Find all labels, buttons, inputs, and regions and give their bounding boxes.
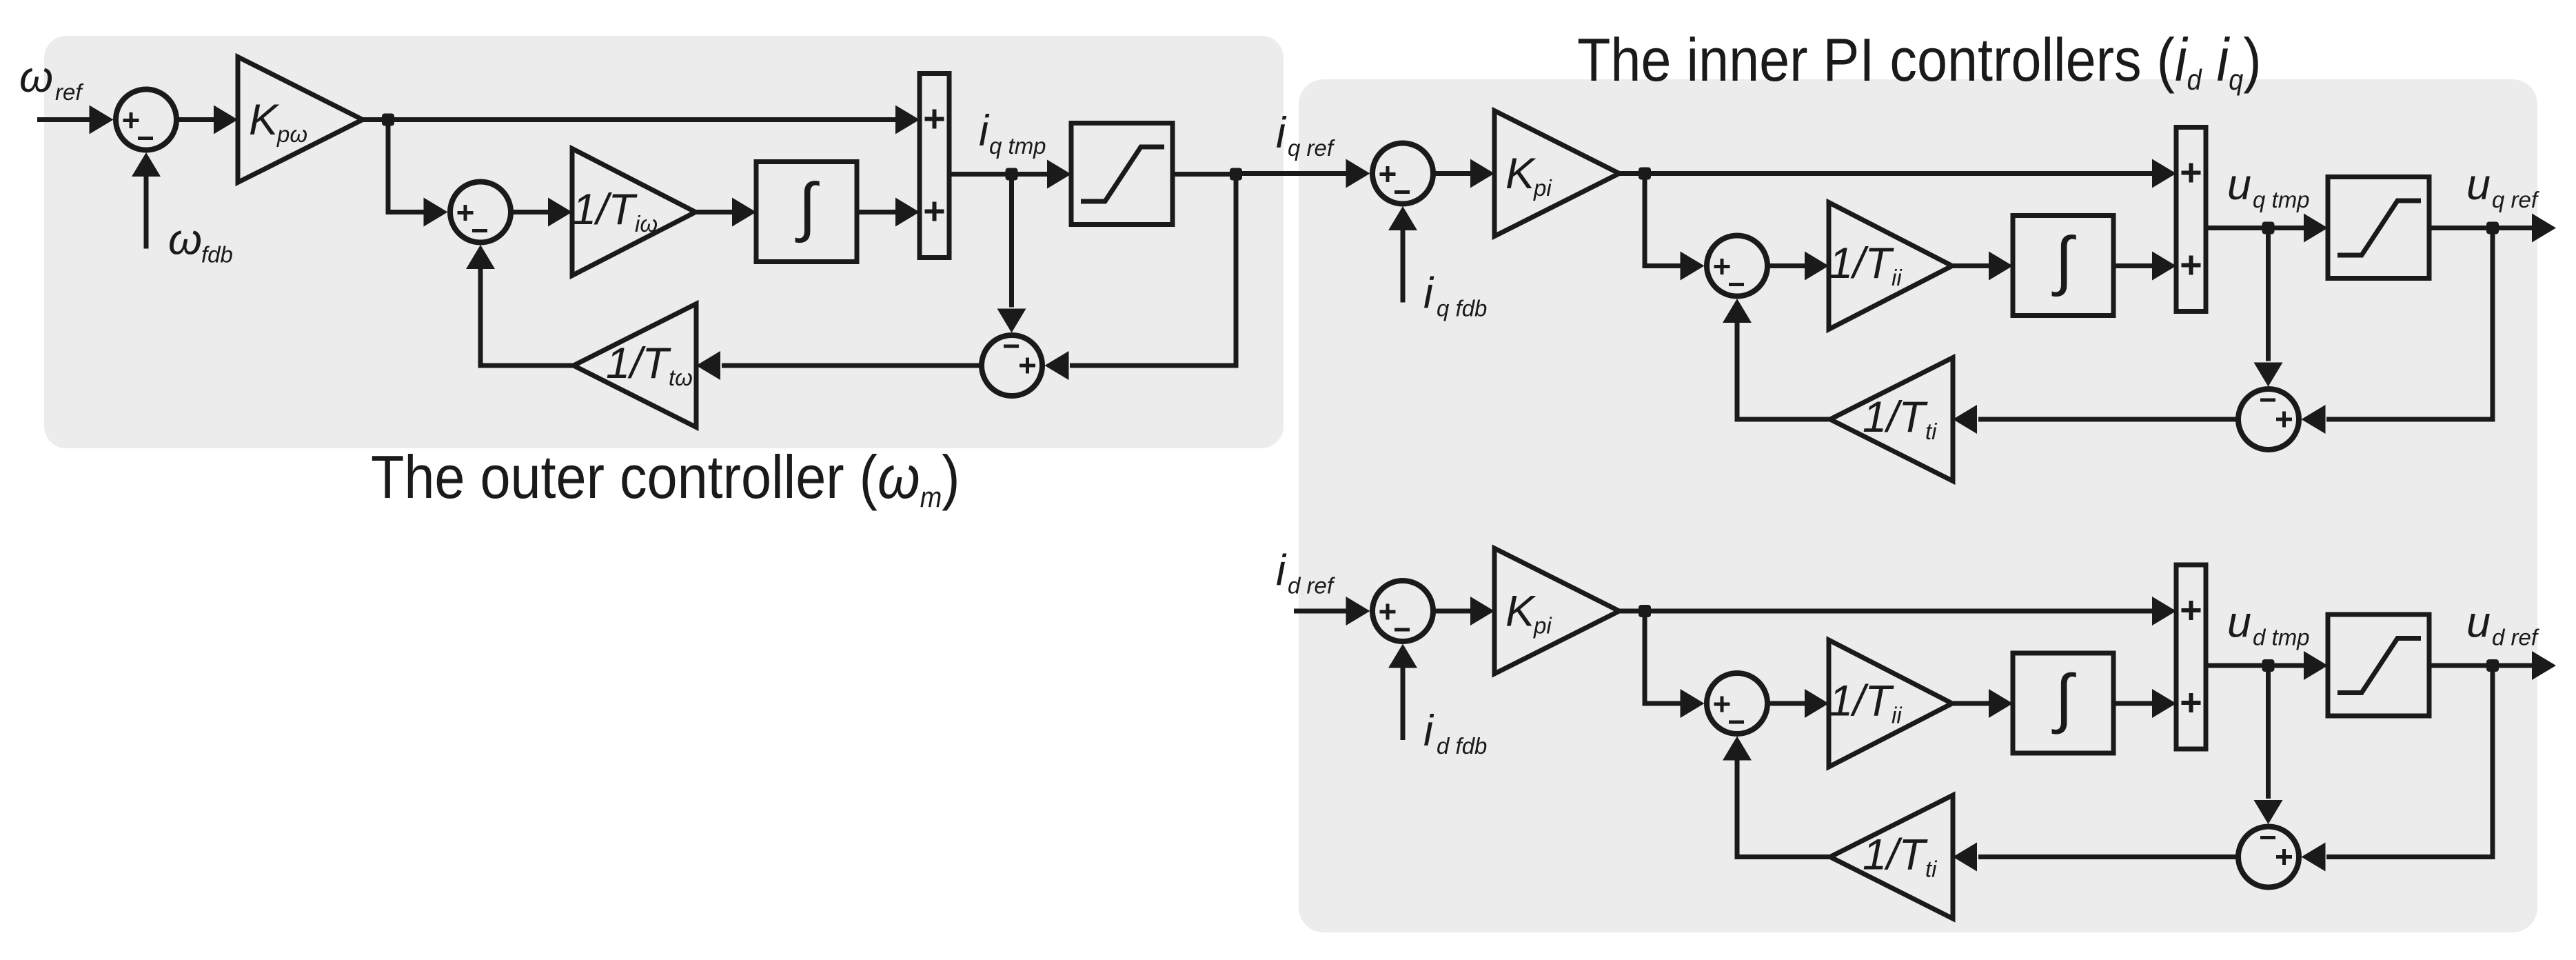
node junction i_q_tmp (1006, 168, 1018, 181)
svg-text:d tmp: d tmp (2253, 625, 2310, 650)
wire: summing junction D1 to gain Kpi_d (1436, 597, 1495, 626)
svg-text:u: u (2466, 161, 2491, 209)
wire: saturation D output (2429, 663, 2493, 668)
wire: u_q_tmp down to summing junction Q3 (2254, 228, 2283, 387)
wire: gain Kpw output to summing block W-sum (proportional path) (363, 106, 920, 134)
summing junction W1 (+/-) (116, 90, 176, 150)
node junction i_q_ref (1230, 168, 1242, 181)
svg-text:i: i (1423, 707, 1434, 755)
saturation block W (limiter) (1071, 123, 1173, 225)
wire: integrator Q to summing block Q-sum (integral path) (2113, 252, 2176, 281)
svg-text:q tmp: q tmp (2253, 187, 2310, 212)
svg-text:pi: pi (1533, 613, 1552, 639)
svg-text:pi: pi (1533, 175, 1552, 201)
summing junction Q1 (+/-) (1372, 143, 1433, 204)
svg-text:d ref: d ref (1288, 573, 1336, 599)
node i_q_tmp label (979, 107, 1046, 159)
svg-text:∫: ∫ (2051, 224, 2076, 297)
svg-text:iω: iω (635, 211, 658, 237)
wire: gain 1/T_ii_q to integrator Q (1952, 252, 2013, 281)
svg-text:1/T: 1/T (572, 186, 638, 234)
gain block 1/T_tw (triangle, anti-windup) (574, 304, 696, 428)
svg-text:ti: ti (1925, 419, 1938, 444)
wire: gain Kpi_d output to summing block D-sum (proportional path) (1619, 597, 2176, 626)
svg-text:K: K (1505, 588, 1537, 636)
integrator block Q (1/s) (2013, 216, 2113, 316)
wire: integrator D to summing block D-sum (integral path) (2113, 689, 2176, 718)
gain block Kpi_q (triangle) (1494, 111, 1619, 237)
svg-text:1/T: 1/T (1829, 677, 1895, 726)
wire: saturation W output (1173, 172, 1236, 177)
gain block 1/T_ii_q (triangle) (1829, 203, 1952, 330)
node u_d_ref label (2466, 599, 2540, 650)
svg-text:∫: ∫ (2051, 662, 2076, 735)
wire: summing junction Q3 to gain 1/T_ti_q (1953, 405, 2236, 434)
node junction u_d_tmp (2262, 659, 2275, 672)
summing junction W2 (+/-) (450, 182, 511, 243)
svg-text:ref: ref (55, 79, 84, 105)
node junction after gain Kpi_q (1639, 168, 1651, 180)
wire: summing block W-sum output to saturation W (949, 160, 1071, 189)
wire: gain 1/T_ti_q back up to summing junction Q2 (1723, 299, 1830, 419)
wire: omega_fdb feedback input into summing junction W1 (132, 152, 161, 249)
gain block Kpw (triangle) (238, 57, 363, 183)
wire: u_d_ref output down to summing junction D3 (2302, 666, 2493, 872)
svg-text:The inner PI controllers (id i: The inner PI controllers (id iq) (1577, 26, 2262, 96)
svg-text:The outer controller (ωm): The outer controller (ωm) (371, 443, 960, 513)
wire: i_q_tmp down to summing junction W3 (997, 174, 1026, 333)
wire: u_q_ref output arrow (2493, 214, 2556, 243)
node u_q_ref label (2466, 161, 2540, 212)
node i_q_ref input label (1276, 109, 1336, 161)
integrator block D (1/s) (2013, 653, 2113, 753)
wire: i_d_fdb feedback input into summing junction D1 (1388, 644, 1417, 741)
wire: i_d_ref input into summing junction D1 (1294, 597, 1370, 626)
wire: i_q_fdb feedback input into summing junction Q1 (1388, 206, 1417, 303)
svg-text:u: u (2227, 161, 2251, 209)
svg-text:∫: ∫ (795, 170, 820, 243)
svg-text:1/T: 1/T (1863, 393, 1929, 441)
wire: saturation Q output (2429, 226, 2493, 230)
node junction u_d_ref (2486, 659, 2499, 672)
svg-text:ω: ω (168, 216, 202, 264)
wire: gain 1/T_ii_d to integrator D (1952, 689, 2013, 718)
wire: summing junction W1 to gain Kpw (179, 106, 239, 134)
wire: gain 1/T_iw to integrator W (696, 198, 756, 227)
svg-text:K: K (249, 96, 280, 144)
wire: summing junction W3 to gain 1/T_tw (696, 351, 980, 380)
node i_d_ref input label (1276, 547, 1336, 599)
node omega_fdb feedback label (168, 216, 233, 268)
svg-text:i: i (1276, 547, 1287, 595)
node i_q_fdb feedback label (1423, 270, 1487, 321)
gain block 1/T_iw (triangle) (572, 149, 696, 276)
svg-text:q fdb: q fdb (1437, 296, 1487, 321)
svg-text:i: i (1423, 270, 1434, 318)
summing junction D3 (-/+ anti-windup) (2238, 827, 2299, 888)
svg-text:i: i (1276, 109, 1287, 157)
gain block 1/T_ti_d (triangle, anti-windup) (1830, 795, 1953, 919)
svg-text:u: u (2227, 599, 2251, 647)
gain block Kpi_d (triangle) (1494, 548, 1619, 674)
wire: summing block Q-sum output to saturation Q (2206, 214, 2328, 243)
wire: gain 1/T_tw back up to summing junction W2 (466, 245, 574, 366)
summing block D-sum (vertical ++ rectangle) (2176, 565, 2206, 749)
wire: summing block D-sum output to saturation D (2206, 651, 2328, 680)
node junction after gain Kpi_d (1639, 605, 1651, 617)
wire: u_q_ref output down to summing junction Q3 (2302, 228, 2493, 434)
summing junction D1 (+/-) (1372, 581, 1433, 641)
summing junction W3 (-/+ anti-windup) (982, 335, 1042, 396)
node omega_ref input label (19, 53, 84, 105)
svg-text:i: i (979, 107, 990, 155)
summing block Q-sum (vertical ++ rectangle) (2176, 128, 2206, 312)
node u_q_tmp label (2227, 161, 2310, 212)
wire: i_q_ref output down to summing junction W3 (1045, 174, 1237, 381)
wire: summing junction D3 to gain 1/T_ti_d (1953, 843, 2236, 872)
svg-text:q ref: q ref (1288, 135, 1336, 161)
node junction after gain Kpw (382, 114, 394, 126)
svg-text:pω: pω (276, 121, 307, 147)
background region: outer controller (gray rounded rect) (44, 36, 1284, 448)
gain block 1/T_ti_q (triangle, anti-windup) (1830, 358, 1953, 481)
svg-text:d ref: d ref (2492, 625, 2540, 650)
svg-text:fdb: fdb (201, 242, 233, 268)
summing junction Q2 (+/-) (1707, 236, 1767, 297)
wire: branch from gain junction down to summing junction D2 (1645, 613, 1705, 718)
svg-text:q ref: q ref (2492, 187, 2540, 212)
wire: summing junction Q2 to gain 1/T_ii_q (1770, 252, 1829, 281)
summing junction Q3 (-/+ anti-windup) (2238, 389, 2299, 450)
svg-text:1/T: 1/T (1829, 239, 1895, 288)
wire: gain Kpi_q output to summing block Q-sum (proportional path) (1619, 159, 2176, 188)
wire: branch from gain junction down to summing junction W2 (388, 122, 448, 227)
svg-text:K: K (1505, 150, 1537, 198)
node u_d_tmp label (2227, 599, 2310, 650)
node i_d_fdb feedback label (1423, 707, 1487, 759)
svg-text:d fdb: d fdb (1437, 733, 1487, 759)
saturation block D (limiter) (2328, 614, 2429, 716)
wire: u_d_tmp down to summing junction D3 (2254, 666, 2283, 824)
svg-text:1/T: 1/T (606, 339, 672, 388)
wire: gain 1/T_ti_d back up to summing junction D2 (1723, 737, 1830, 857)
svg-text:ω: ω (19, 53, 53, 101)
integrator block W (1/s) (756, 162, 857, 262)
wire: u_d_ref output arrow (2493, 651, 2556, 680)
gain block 1/T_ii_d (triangle) (1829, 640, 1952, 767)
svg-text:tω: tω (669, 365, 693, 390)
saturation block Q (limiter) (2328, 177, 2429, 279)
svg-text:ii: ii (1892, 703, 1903, 728)
wire: i_q_ref input into summing junction Q1 (1236, 159, 1370, 188)
node junction u_q_ref (2486, 222, 2499, 234)
svg-text:1/T: 1/T (1863, 831, 1929, 879)
svg-text:u: u (2466, 599, 2491, 647)
wire: summing junction W2 to gain 1/T_iw (514, 198, 573, 227)
background region: inner PI controllers (gray rounded rect) (1299, 79, 2537, 932)
node junction u_q_tmp (2262, 222, 2275, 234)
wire: summing junction Q1 to gain Kpi_q (1436, 159, 1495, 188)
summing block W-sum (vertical ++ rectangle) (920, 74, 949, 258)
wire: branch from gain junction down to summing junction Q2 (1645, 176, 1705, 281)
svg-text:ii: ii (1892, 265, 1903, 290)
wire: omega_ref input into summing junction W1 (37, 106, 114, 134)
wire: integrator W to summing block W-sum (integral path) (857, 198, 920, 227)
svg-text:q tmp: q tmp (989, 133, 1046, 159)
wire: summing junction D2 to gain 1/T_ii_d (1770, 689, 1829, 718)
svg-text:ti: ti (1925, 857, 1938, 882)
summing junction D2 (+/-) (1707, 673, 1767, 734)
